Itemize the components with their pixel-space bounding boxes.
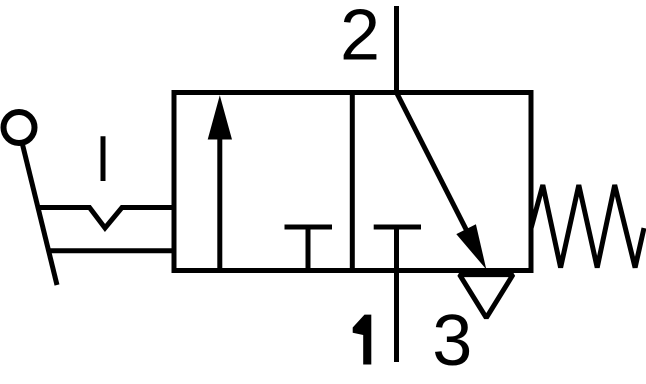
flow arrow up head [208,95,232,139]
exhaust triangle port 3 [460,275,514,318]
valve body outline [174,93,531,271]
flow arrow 2 to 3 shaft [397,93,474,244]
detent tick [101,136,106,181]
upper link with detent notch [38,208,175,229]
flow arrow up (left position) shaft [217,136,222,271]
lever knob circle [4,112,35,143]
blocked port T left [285,227,333,271]
svg-text:2: 2 [340,0,380,75]
return spring [531,185,644,268]
port 2 line [394,6,399,93]
lever arm [23,145,58,286]
flow arrow 2 to 3 head [456,224,486,269]
label 1 [353,315,372,365]
lower link [49,248,175,253]
svg-text:3: 3 [432,301,472,381]
blocked port T right with port 1 stem [374,227,421,362]
position divider [350,93,355,271]
